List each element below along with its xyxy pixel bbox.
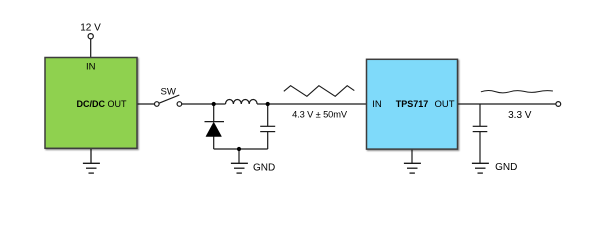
svg-text:3.3 V: 3.3 V xyxy=(508,110,532,121)
svg-text:TPS717: TPS717 xyxy=(396,99,429,109)
svg-text:4.3 V ± 50mV: 4.3 V ± 50mV xyxy=(292,109,348,119)
svg-text:IN: IN xyxy=(86,62,96,73)
svg-text:OUT: OUT xyxy=(434,99,454,110)
svg-text:SW: SW xyxy=(160,87,176,98)
svg-text:12 V: 12 V xyxy=(80,23,101,34)
svg-text:GND: GND xyxy=(253,163,275,174)
svg-text:IN: IN xyxy=(372,99,382,110)
svg-text:GND: GND xyxy=(495,162,517,173)
svg-text:DC/DC OUT: DC/DC OUT xyxy=(77,99,128,109)
